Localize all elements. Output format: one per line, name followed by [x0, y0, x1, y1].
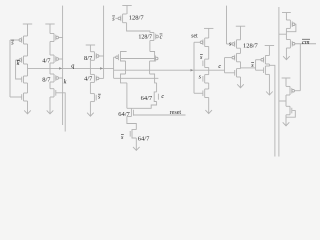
- wire: latch right mid riser: [149, 61, 151, 74]
- power VDD T stage B: [236, 25, 245, 27]
- svg-text:128/7: 128/7: [129, 15, 145, 22]
- transistor M15 latch right upper: [150, 52, 155, 62]
- wire: spine to ground (stage C): [268, 74, 270, 94]
- transistor M16 latch right lower: [150, 74, 157, 83]
- wire: stage B drain to stage C: [240, 62, 242, 69]
- gate bar M15: [154, 56, 156, 62]
- wire: stage A drain node: [208, 68, 210, 75]
- wire: M11 drain to M12: [127, 23, 150, 33]
- transistor M31 PMOS gate cm-bar (stage D latch): [286, 85, 290, 87]
- wire: c output rail: [114, 69, 225, 71]
- wire: cm-bar input wire: [295, 43, 316, 45]
- transistor M25 PMOS gate c (stage B): [237, 52, 241, 54]
- wire: keeper spine across q rail: [89, 60, 91, 74]
- ground (stage C): [266, 92, 273, 96]
- svg-text:128/7: 128/7: [243, 42, 259, 49]
- wire: cm-bar riser down: [299, 44, 301, 91]
- wire: q node spine (stage1 left): [27, 64, 29, 76]
- bubble latch gate right M15: [155, 57, 158, 60]
- wire: M31 drain node: [285, 95, 287, 106]
- wire: set vertical: [193, 42, 195, 93]
- wire: q node spine (stage1 right): [49, 63, 51, 74]
- bubble latch gate left M13: [116, 56, 119, 59]
- wire: latch vertical link: [113, 57, 115, 78]
- wire: spine M24-M25: [240, 48, 242, 53]
- transistor M29 PMOS diode (stage D upper): [286, 19, 290, 21]
- wire: drain to long vertical: [279, 100, 286, 102]
- transistor M20 PMOS gate set (stage A): [205, 37, 209, 39]
- svg-text:c: c: [160, 33, 163, 40]
- transistor M26 NMOS gate c (stage B): [237, 68, 241, 70]
- svg-text:64/7: 64/7: [138, 135, 150, 142]
- power VDD T stage D latch: [282, 77, 291, 79]
- transistor M21 PMOS gate s-bar (stage A): [205, 58, 209, 60]
- wire: stage C input riser: [255, 60, 257, 70]
- junction arrow c rail at set vertical: [191, 69, 194, 72]
- power VDD T stage1 left: [23, 23, 32, 25]
- svg-text:set: set: [191, 34, 198, 40]
- ground (stage B): [237, 84, 244, 88]
- wire: spine to ground (stage D upper): [285, 48, 287, 59]
- svg-text:8/7: 8/7: [84, 55, 93, 62]
- wire: M8 gate net going down: [56, 93, 65, 132]
- transistor M27 PMOS (stage C inverter): [265, 55, 269, 57]
- svg-text:64/7: 64/7: [118, 111, 130, 118]
- wire: latch lower gate rail: [114, 77, 159, 79]
- transistor M14 latch left lower: [121, 74, 127, 83]
- wire: M29 gate loop to drain: [286, 24, 296, 32]
- transistor M19 NMOS 64/7 gate c (right of latch): [154, 92, 156, 102]
- wire: spine to ground (stage B): [240, 77, 242, 87]
- svg-text:k: k: [17, 60, 20, 67]
- wire: latch cross-couple rail: [121, 58, 156, 60]
- ground (stage1 left): [24, 110, 31, 114]
- transistor M3 NMOS (stage1 left): [24, 75, 28, 77]
- svg-text:cm: cm: [302, 39, 310, 46]
- transistor M9 PMOS 4/7 (keeper, gate to vertical): [90, 73, 94, 75]
- transistor M5 PMOS gate k (stage1 right): [50, 33, 54, 35]
- transistor M32 NMOS diode (stage D latch): [286, 105, 290, 107]
- wire: latch right spine down: [156, 83, 158, 92]
- gate bar M13: [117, 54, 119, 60]
- svg-text:k: k: [64, 79, 67, 86]
- transistor M30 gate cm-bar (stage D upper): [286, 39, 290, 41]
- transistor M9a PMOS 8/7 (keeper, gate to vertical): [90, 51, 94, 53]
- wire: M19 drain staircase to M17 drain: [131, 102, 156, 109]
- transistor M1 PMOS gate s-bar (stage1 left): [24, 35, 28, 37]
- wire: spine M7-M8: [49, 82, 51, 89]
- wire: spine to ground (keeper): [89, 102, 91, 116]
- transistor M12 PMOS 128/7 gate c-bar: [150, 32, 154, 34]
- transistor M6 PMOS 4/7 gate k (stage1 right): [50, 54, 54, 56]
- svg-text:c: c: [161, 93, 164, 100]
- power VDD T stage1 right: [45, 23, 54, 25]
- wire: spine to ground (stage1 right): [49, 97, 51, 113]
- transistor M8 NMOS (stage1 right): [50, 88, 54, 90]
- transistor M23 NMOS gate set (stage A): [205, 88, 209, 90]
- ground (stage D latch): [283, 122, 290, 126]
- wire: s-bar to NMOS M4 gate: [10, 96, 22, 98]
- wire: stage C output to right vertical: [269, 65, 275, 156]
- wire: stage D mid node: [285, 28, 287, 39]
- wire: spine M12 down to latch: [149, 41, 151, 52]
- transistor M13 latch left upper: [121, 52, 127, 62]
- wire: q horizontal rail: [28, 67, 114, 69]
- power VDD T stage C: [265, 45, 274, 47]
- wire: spine to ground (bottom): [135, 138, 137, 150]
- svg-text:4/7: 4/7: [84, 76, 93, 83]
- svg-text:64/7: 64/7: [141, 95, 153, 102]
- wire: spine to ground (stage1 left): [27, 101, 29, 113]
- transistor M24 PMOS 128/7 gate s (stage B): [237, 39, 241, 41]
- wire: spine to ground (stage D latch): [285, 115, 287, 126]
- wire: long vertical right: [278, 7, 280, 157]
- transistor M2 PMOS (stage1 left, gate k-bar): [24, 55, 28, 57]
- wire: M17 to M18: [127, 117, 136, 130]
- transistor M22 NMOS gate s (stage A): [205, 74, 209, 76]
- ground (stage1 right): [47, 110, 54, 114]
- transistor M7 PMOS 8/7 gate k (stage1 right): [50, 73, 54, 75]
- wire: spine M9-M10: [89, 82, 91, 93]
- wire: spine M5-M6: [49, 42, 51, 56]
- wire: M32 gate loop: [286, 111, 295, 118]
- transistor M18 NMOS 64/7 gate s-bar (bottom): [132, 130, 136, 138]
- power VDD T latch: [122, 5, 131, 7]
- transistor M17 NMOS 64/7 gate reset: [127, 107, 131, 109]
- svg-text:128/7: 128/7: [138, 34, 152, 40]
- wire: c vertical (stage B input): [224, 58, 226, 73]
- svg-text:reset: reset: [170, 110, 182, 116]
- transistor M28 NMOS (stage C inverter): [265, 65, 269, 67]
- svg-text:q: q: [71, 63, 74, 70]
- wire: spine M3-M4: [27, 83, 29, 93]
- transistor M4 NMOS gate s-bar (stage1 left): [24, 92, 28, 94]
- wire: stage C drain node: [268, 64, 270, 66]
- wire: k vertical net: [62, 6, 64, 125]
- wire: spine M20-M21: [208, 47, 210, 60]
- wire: latch left spine down: [126, 83, 128, 108]
- junction arrow q at k vertical: [59, 67, 62, 70]
- wire: spine to ground (stage A): [208, 98, 210, 114]
- power VDD T stage D upper: [282, 12, 291, 14]
- wire: latch left mid riser: [125, 61, 127, 74]
- junction arrow q at second vertical: [100, 67, 103, 70]
- ground (keeper): [87, 113, 94, 117]
- wire: long vertical net (left of latch): [103, 6, 105, 79]
- svg-text:c: c: [218, 63, 221, 70]
- wire: k-bar stub down to M3 gate: [16, 60, 22, 79]
- wire: spine M1-M2: [27, 44, 29, 56]
- ground (stage A): [205, 110, 212, 114]
- transistor M10 NMOS gate s-bar (keeper): [90, 93, 94, 95]
- wire: s vertical (stage B input): [226, 6, 228, 44]
- wire: latch left gate from link: [114, 56, 116, 58]
- power VDD T stage A: [204, 27, 213, 29]
- wire: spine M22-M23: [208, 83, 210, 89]
- wire: reset wire: [133, 114, 185, 116]
- wire: s-bar net vertical (stage1): [9, 40, 11, 97]
- transistor M11 PMOS 128/7 gate s-bar (latch top): [123, 13, 127, 15]
- power VDD T keeper column: [86, 44, 95, 46]
- ground (bottom middle): [133, 147, 140, 151]
- ground (stage D upper): [283, 56, 290, 60]
